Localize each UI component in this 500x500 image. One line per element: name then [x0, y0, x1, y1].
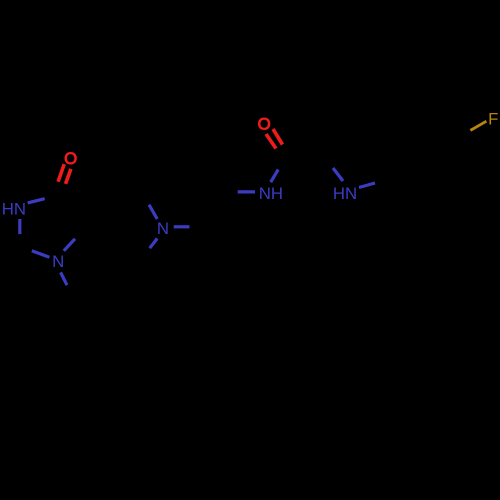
bond C4=O1 red half line a: [58, 164, 64, 182]
svg-text:N: N: [157, 219, 169, 238]
bond C5-F gold half: [470, 121, 486, 130]
bond indoleN-C7a blue half: [359, 183, 375, 188]
svg-text:NH: NH: [259, 184, 283, 203]
svg-text:N: N: [52, 252, 64, 271]
bond pipN-C upleft blue half: [149, 205, 157, 219]
svg-text:O: O: [258, 115, 271, 134]
bond NH-CH2 left blue half: [238, 190, 255, 193]
bond indoleN-C2 blue half: [333, 168, 343, 181]
bond N1-spiroC blue half: [64, 239, 75, 251]
bond C4=O1 red half line b: [66, 169, 71, 184]
svg-text:HN: HN: [333, 184, 357, 203]
bond pipN-CH2 right blue half: [174, 225, 190, 228]
bond C2-N1 blue half: [32, 251, 50, 257]
bond pipN-C downleft blue half: [150, 239, 158, 249]
bond N1-phenyl blue half: [61, 272, 67, 285]
svg-text:F: F: [488, 109, 498, 128]
bond N3-C2 blue half: [18, 219, 21, 234]
bond C=O2 red half line b: [266, 134, 276, 149]
bond C=O2 red half line a: [273, 129, 283, 145]
svg-text:O: O: [64, 149, 77, 168]
bond N3-C4 blue half: [28, 199, 45, 203]
svg-text:HN: HN: [2, 199, 26, 218]
bond NH-C(=O) upright blue half: [271, 170, 279, 183]
